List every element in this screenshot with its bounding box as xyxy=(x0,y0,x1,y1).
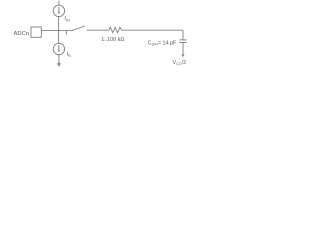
wire capacitor to V_CC/2 xyxy=(182,43,184,56)
current source I_IL circle xyxy=(53,43,64,54)
svg-text:VCC/2: VCC/2 xyxy=(173,60,187,66)
arrow inside I_IL xyxy=(58,45,60,50)
arrowhead inside I_IL xyxy=(58,50,60,52)
capacitor C_S/H top plate xyxy=(180,39,187,41)
capacitor C_S/H bottom plate xyxy=(180,42,187,44)
switch (sample/hold) xyxy=(71,26,85,31)
wire stub above I_IH xyxy=(58,1,60,5)
wire below I_IL xyxy=(58,55,60,64)
wire junction down to I_IL xyxy=(58,31,60,44)
svg-text:IIL: IIL xyxy=(67,51,72,57)
wire switch to resistor xyxy=(87,29,109,31)
wire resistor to corner xyxy=(122,29,184,31)
svg-text:ADCn: ADCn xyxy=(14,31,29,37)
switch pivot post xyxy=(65,31,67,35)
wire pin to switch xyxy=(41,30,71,32)
svg-text:IIH: IIH xyxy=(65,16,71,22)
current source U_IH circle xyxy=(53,5,64,16)
arrowhead at V_CC/2 xyxy=(181,54,184,57)
node junction vertical wire xyxy=(58,17,60,31)
arrowhead of I_IL wire xyxy=(57,63,61,67)
resistor 1..100 kOhm zigzag xyxy=(109,27,122,32)
wire corner down to capacitor xyxy=(182,30,184,40)
arrow inside I_IH xyxy=(58,7,60,12)
svg-text:1..100 kΩ: 1..100 kΩ xyxy=(101,37,124,43)
arrowhead inside I_IH xyxy=(58,12,60,14)
pin box ADCn xyxy=(31,27,41,37)
svg-text:CS/H= 14 pF: CS/H= 14 pF xyxy=(148,40,177,46)
